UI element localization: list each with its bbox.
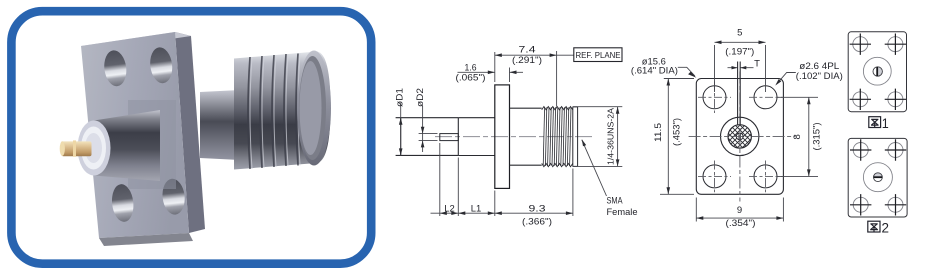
fig2 center circle [863,163,892,192]
hand-drawn CJK: 图2 [868,221,880,232]
fig1 holes [853,37,903,107]
SMA female leader [582,140,607,196]
leader o15.6 [678,67,695,76]
svg-text:SMA: SMA [607,196,624,207]
barrel between flange and threads [510,108,542,165]
flange (side) [495,85,510,188]
dim 11.5 [667,79,669,195]
fig1 plate outline [848,32,906,112]
svg-text:(.315"): (.315") [812,123,823,151]
svg-text:(.366"): (.366") [522,216,552,227]
svg-text:1/4-36UNS-2A: 1/4-36UNS-2A [606,108,616,165]
centerlines front view [689,72,796,202]
fig1 hole crosshairs [850,34,907,111]
svg-text:L1: L1 [471,204,482,215]
svg-text:T: T [754,59,760,70]
dim T lines [728,67,754,69]
dim 7.4 line [495,54,574,56]
thread flank lines [543,107,571,166]
dim oD1 line [400,103,402,155]
fig2 holes [853,143,903,213]
fig2 contact slot (horizontal) [874,176,883,178]
ext lines flange top [495,52,510,82]
svg-text:Female: Female [607,207,638,218]
mounting hole top-right [148,46,174,84]
arrows: L2 [440,211,447,215]
dim 1.6 leader left [458,71,524,73]
thread size ext lines [573,107,623,167]
svg-text:2: 2 [882,219,890,235]
fig1 center circle [863,57,891,85]
svg-text:(.614" DIA): (.614" DIA) [631,66,678,77]
mid body section to flange [458,118,495,156]
boss recess on plate behind barrel [128,100,176,189]
mounting hole top-left [0,0,1,1]
flange plate top face [81,32,191,50]
plate bottom face [99,233,193,246]
rear body cylinder outline [396,118,459,156]
center contact pin [440,134,459,141]
flange outline (front) [696,79,783,195]
front barrel (dielectric housing) [0,0,1,1]
barrel front face ring [78,121,111,176]
dim 8 ext [777,97,818,176]
svg-text:5: 5 [737,27,742,38]
center socket circle [736,133,743,140]
arrows: oD1 [399,118,403,125]
mounting hole bottom-left [110,183,135,223]
svg-text:8: 8 [792,134,803,139]
svg-text:(.291"): (.291") [512,55,542,66]
arrows: 7.4 [495,53,502,57]
svg-text:(.065"): (.065") [456,72,486,83]
body step face [457,118,459,156]
svg-text:(.197"): (.197") [725,46,754,57]
flange plate front face [0,0,1,1]
blue rounded border frame [11,11,371,264]
leader o2.6 [777,73,796,85]
thread crest zigzag top [542,107,573,110]
svg-text:11.5: 11.5 [653,123,664,142]
fig2 plate outline [848,138,907,217]
hole bottom-right [754,165,777,188]
arrows: 1.6 (outside) [488,71,495,75]
coupling nut body [0,0,1,1]
svg-text:L2: L2 [444,204,455,215]
center pin (gold) [0,0,1,1]
hand-drawn CJK: 图1 [869,117,881,128]
fig1 caption [869,115,889,131]
ref plane extension [556,51,558,107]
thread crest zigzag bottom [542,163,573,166]
thread runout / end collar [573,107,578,167]
svg-text:øD2: øD2 [415,88,426,107]
arrows: L1 [458,211,465,215]
svg-text:1: 1 [882,115,889,131]
dielectric hatch circle [728,125,751,148]
arrows front view [715,41,722,45]
dim 5 ext+line [715,45,766,92]
nut grooves [248,54,298,170]
REF. PLANE box [574,48,622,62]
fig2 hole crosshairs [850,139,906,215]
oD2 extension lines [419,134,438,141]
arrows: 9.3 [495,211,502,215]
nut front face [0,0,1,1]
arrows: oD2 (outside) [421,127,425,134]
svg-text:(.102" DIA): (.102" DIA) [796,71,843,82]
fig1 contact slot (vertical) [876,67,878,76]
svg-text:9.3: 9.3 [529,204,546,215]
flange plate side face [175,32,205,233]
svg-text:øD1: øD1 [395,88,406,107]
hole top-left [703,86,726,109]
dim oD2 line [422,106,424,152]
hole top-right [754,86,777,109]
fig2 caption [868,219,889,235]
svg-text:(.354"): (.354") [726,218,756,229]
bottom ext lines [440,143,573,216]
rear neck between plate and nut [0,0,1,1]
dim 9 [696,198,783,222]
centerline (side view) [435,136,595,138]
bottom dim line [431,212,573,214]
svg-text:REF. PLANE: REF. PLANE [576,50,621,60]
outer barrel circle [721,117,759,155]
mounting hole bottom-right [161,178,187,216]
svg-text:7.4: 7.4 [519,45,536,56]
thread size dim line [617,107,619,167]
svg-text:9: 9 [737,205,742,216]
svg-text:(.453"): (.453") [672,118,683,146]
hole bottom-left [703,165,726,188]
arrows: thread dim [616,107,620,114]
